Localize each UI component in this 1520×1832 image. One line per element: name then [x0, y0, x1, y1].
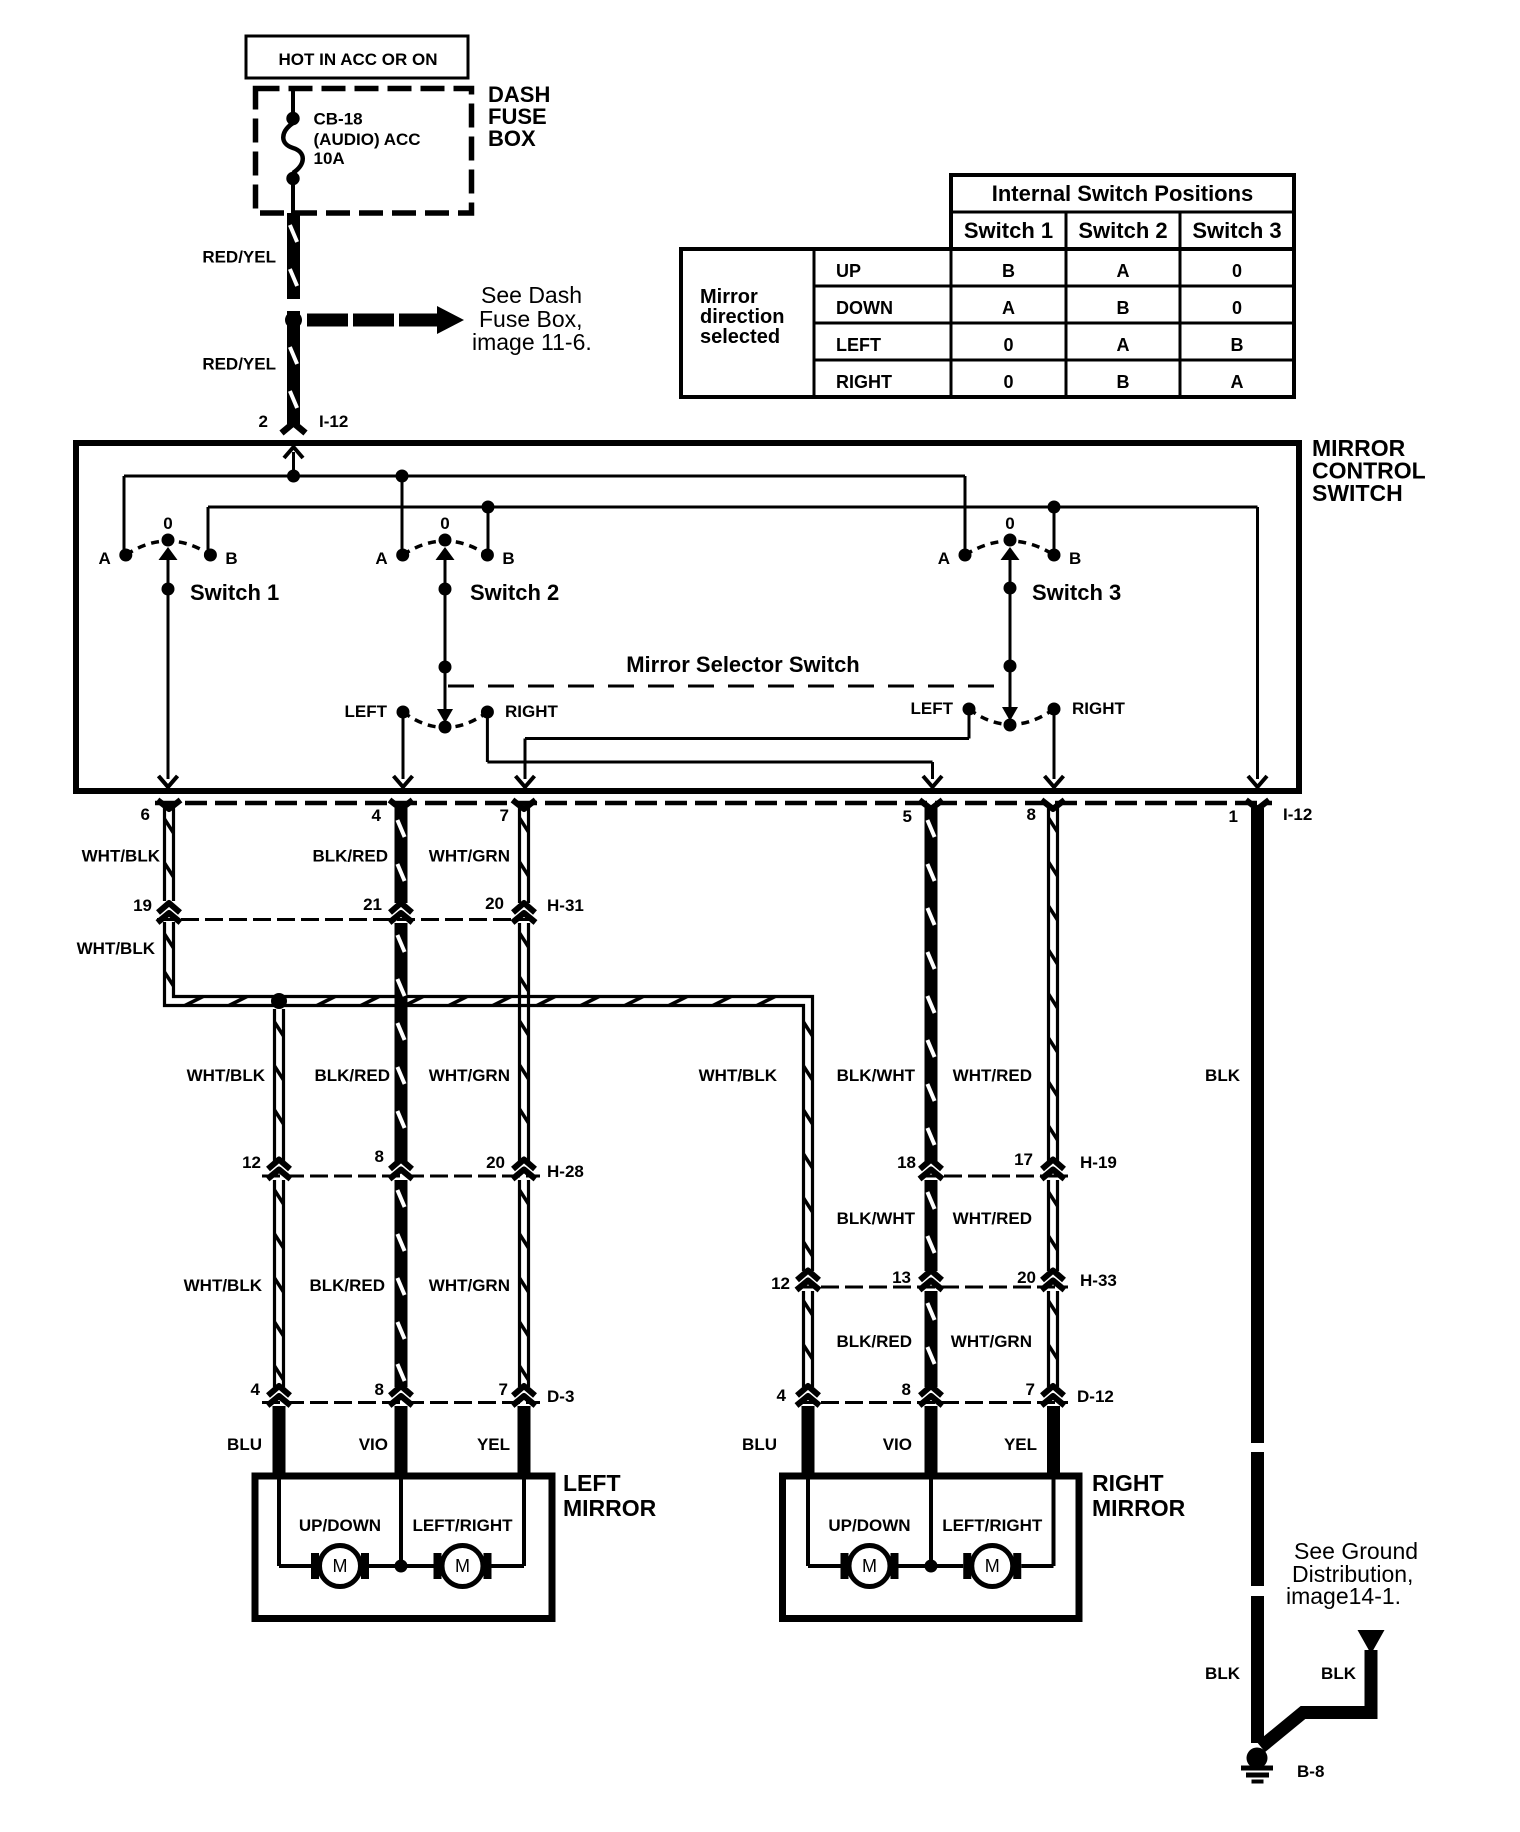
wire YEL stub right — [1047, 1406, 1060, 1476]
pin label 8 — [1027, 805, 1036, 824]
label WHT/RED second — [953, 1209, 1032, 1228]
connector I-12 pin 1 cup — [1246, 800, 1269, 809]
svg-text:YEL: YEL — [1004, 1435, 1037, 1454]
svg-text:image14-1.: image14-1. — [1286, 1583, 1401, 1609]
svg-text:I-12: I-12 — [319, 412, 348, 431]
note See Ground Distribution image14-1 — [1286, 1538, 1418, 1609]
pin label 4 (D-3) — [251, 1380, 261, 1399]
connector pair D-12 pin 7 — [1042, 1386, 1065, 1406]
svg-text:4: 4 — [372, 806, 382, 825]
svg-text:WHT/RED: WHT/RED — [953, 1209, 1032, 1228]
pin label 4 (D-12) — [777, 1386, 787, 1405]
svg-text:BLK/RED: BLK/RED — [836, 1332, 912, 1351]
svg-text:UP: UP — [836, 261, 861, 281]
svg-text:Mirror Selector Switch: Mirror Selector Switch — [626, 652, 860, 677]
svg-text:BLK/WHT: BLK/WHT — [837, 1209, 916, 1228]
power source label box HOT IN ACC OR ON — [246, 36, 468, 78]
svg-text:A: A — [938, 549, 950, 568]
switch 1 (A-0-B contacts) — [99, 514, 280, 605]
dashed arrow to See Dash Fuse Box — [307, 306, 464, 334]
connector I-12 pin 5 cup — [920, 800, 943, 809]
wire YEL stub left — [518, 1406, 531, 1476]
node junction dot — [285, 312, 302, 329]
junction dot bus2 switch2 B — [482, 501, 495, 514]
svg-text:M: M — [333, 1556, 348, 1576]
svg-text:M: M — [985, 1556, 1000, 1576]
pin label 18 — [897, 1153, 916, 1172]
label WHT/RED pin8 — [953, 1066, 1032, 1085]
connector H-28 dashed row — [262, 1175, 540, 1178]
svg-text:BLK: BLK — [1205, 1066, 1241, 1085]
right mirror assembly with motors — [783, 1476, 1080, 1619]
svg-text:RED/YEL: RED/YEL — [202, 248, 276, 267]
svg-text:A: A — [1002, 298, 1015, 318]
svg-text:WHT/RED: WHT/RED — [953, 1066, 1032, 1085]
label WHT/BLK right group — [699, 1066, 778, 1085]
connector H-19 dashed row — [920, 1175, 1068, 1178]
table row header Mirror direction selected — [700, 286, 784, 348]
labels BLU VIO YEL right — [742, 1435, 1037, 1454]
label Mirror Selector Switch — [626, 652, 860, 677]
svg-text:Switch 1: Switch 1 — [190, 580, 279, 605]
pin label 8 (D-3) — [375, 1380, 384, 1399]
connector pair H-33 pin 20 — [1042, 1271, 1065, 1291]
svg-text:Internal Switch Positions: Internal Switch Positions — [992, 181, 1254, 206]
label LEFT MIRROR — [563, 1470, 657, 1521]
svg-text:B: B — [502, 549, 514, 568]
svg-text:4: 4 — [777, 1386, 787, 1405]
connector label H-33 — [1080, 1271, 1117, 1290]
svg-text:HOT IN ACC OR ON: HOT IN ACC OR ON — [279, 50, 438, 69]
wire BLU stub left — [273, 1406, 286, 1476]
svg-text:0: 0 — [1232, 298, 1242, 318]
svg-text:13: 13 — [892, 1268, 911, 1287]
svg-text:B: B — [1117, 372, 1130, 392]
switch 2 wiper wire to selector — [439, 551, 452, 710]
wire BLK stub with arrow from ground distribution — [1261, 1630, 1385, 1747]
label BLK/RED right group — [836, 1332, 912, 1351]
connector I-12 pin 8 cup — [1042, 800, 1065, 809]
wire WHT/BLK elbow run to right mirror group — [165, 922, 813, 1271]
label WHT/GRN pin7 — [429, 847, 510, 866]
pin label 1 — [1229, 807, 1238, 826]
svg-text:7: 7 — [1026, 1380, 1035, 1399]
wire bus2 corner drop to I-12 pin 1 — [1256, 507, 1259, 779]
svg-text:LEFT: LEFT — [911, 699, 954, 718]
label BLK/WHT second — [837, 1209, 916, 1228]
svg-text:Mirror: Mirror — [700, 286, 758, 308]
connector pair D-3 pin 7 — [513, 1386, 536, 1406]
svg-text:BLU: BLU — [742, 1435, 777, 1454]
bus wire lower (to switch B contacts) — [208, 506, 1258, 509]
pin label 7 — [500, 806, 509, 825]
wire WHT/RED pin8 column — [1049, 808, 1058, 1387]
pin label 20 (H-28) — [486, 1153, 505, 1172]
svg-text:BOX: BOX — [488, 126, 536, 151]
connector label I-12 top — [319, 412, 348, 431]
pin label 12 (H-33) — [771, 1274, 790, 1293]
wire VIO stub right — [925, 1406, 938, 1476]
pin label 8 (H-28) — [375, 1147, 384, 1166]
svg-text:1: 1 — [1229, 807, 1238, 826]
svg-text:12: 12 — [771, 1274, 790, 1293]
connector I-12 pin 6 cup — [158, 800, 181, 809]
svg-text:0: 0 — [1003, 372, 1013, 392]
svg-text:BLK/RED: BLK/RED — [314, 1066, 390, 1085]
svg-text:8: 8 — [902, 1380, 911, 1399]
svg-text:LEFT: LEFT — [345, 702, 388, 721]
svg-text:B: B — [1002, 261, 1015, 281]
wire WHT/GRN pin7 column — [520, 808, 529, 1387]
svg-text:See Dash: See Dash — [481, 282, 582, 308]
wire RED/YEL from node to connector I-12 pin 2 — [287, 311, 300, 424]
svg-text:8: 8 — [375, 1380, 384, 1399]
svg-text:BLU: BLU — [227, 1435, 262, 1454]
svg-text:Switch 3: Switch 3 — [1032, 580, 1121, 605]
svg-text:WHT/BLK: WHT/BLK — [699, 1066, 778, 1085]
label BLK lower left — [1205, 1664, 1241, 1683]
label RIGHT MIRROR — [1092, 1470, 1186, 1521]
pin label 19 — [133, 896, 152, 915]
connector pair H-28 pin 20 — [513, 1160, 536, 1180]
svg-text:(AUDIO) ACC: (AUDIO) ACC — [314, 130, 421, 149]
wire bus1 drop to switch1 A — [123, 476, 126, 555]
label WHT/BLK pin6 — [82, 847, 161, 866]
labels second tier left group — [187, 1066, 510, 1085]
svg-text:0: 0 — [440, 514, 449, 533]
svg-text:RIGHT: RIGHT — [505, 702, 559, 721]
pin label 6 — [141, 805, 150, 824]
svg-text:A: A — [1117, 335, 1130, 355]
connector D-12 dashed row — [797, 1401, 1068, 1404]
svg-text:0: 0 — [1005, 514, 1014, 533]
svg-text:Switch 2: Switch 2 — [470, 580, 559, 605]
mechanical link dashed between selectors — [448, 685, 1007, 688]
table Internal Switch Positions — [681, 175, 1294, 397]
junction dot on WHT/BLK run — [271, 993, 287, 1009]
svg-text:18: 18 — [897, 1153, 916, 1172]
connector H-33 dashed row — [797, 1286, 1068, 1289]
svg-text:19: 19 — [133, 896, 152, 915]
svg-text:A: A — [1117, 261, 1130, 281]
table direction rows — [836, 261, 893, 392]
connector pair D-3 pin 4 — [268, 1386, 291, 1406]
svg-text:WHT/BLK: WHT/BLK — [77, 939, 156, 958]
wire BLK/RED pin4 column — [395, 808, 408, 1387]
pin label 8 (D-12) — [902, 1380, 911, 1399]
table header text — [964, 181, 1282, 243]
svg-text:4: 4 — [251, 1380, 261, 1399]
note See Dash Fuse Box image 11-6 — [472, 282, 592, 355]
svg-text:0: 0 — [1232, 261, 1242, 281]
connector pair H-31 pin 19 — [158, 903, 181, 923]
connector pair H-19 pin 17 — [1042, 1160, 1065, 1180]
svg-text:H-33: H-33 — [1080, 1271, 1117, 1290]
svg-text:image 11-6.: image 11-6. — [472, 329, 592, 355]
svg-text:BLK/RED: BLK/RED — [312, 847, 388, 866]
connector H-31 dashed row — [157, 918, 540, 921]
left mirror assembly with motors — [255, 1476, 552, 1619]
connector pair H-33 pin 13 — [920, 1271, 943, 1291]
switch 3 wiper wire to selector — [1004, 551, 1017, 708]
svg-text:Switch 3: Switch 3 — [1192, 218, 1281, 243]
wire bus2 rise from switch2 B — [487, 507, 490, 555]
svg-text:D-12: D-12 — [1077, 1387, 1114, 1406]
wire BLU stub right — [802, 1406, 815, 1476]
svg-text:A: A — [99, 549, 111, 568]
switch 1 wiper wire to pin 6 — [162, 551, 175, 779]
label B-8 — [1297, 1762, 1324, 1781]
svg-text:A: A — [1231, 372, 1244, 392]
connector I-12 pin 7 cup — [513, 800, 536, 809]
svg-text:20: 20 — [485, 894, 504, 913]
svg-text:B: B — [1231, 335, 1244, 355]
svg-text:UP/DOWN: UP/DOWN — [299, 1516, 381, 1535]
labels BLU VIO YEL left — [227, 1435, 510, 1454]
svg-text:YEL: YEL — [477, 1435, 510, 1454]
junction dot bus1 switch2 A — [396, 470, 409, 483]
connector pair D-12 pin 8 — [920, 1386, 943, 1406]
feed arrow into box from pin 2 — [284, 447, 303, 476]
connector pair D-12 pin 4 — [797, 1386, 820, 1406]
pin label 20 (H-31) — [485, 894, 504, 913]
svg-text:VIO: VIO — [359, 1435, 388, 1454]
svg-text:8: 8 — [375, 1147, 384, 1166]
selector output arrow pin 5 — [923, 776, 942, 787]
connector pair H-19 pin 18 — [920, 1160, 943, 1180]
svg-text:20: 20 — [486, 1153, 505, 1172]
selector output arrow pin 8 — [1045, 776, 1064, 787]
dash fuse box label — [488, 82, 550, 151]
labels third tier left group — [184, 1276, 510, 1295]
label BLK/WHT pin5 — [837, 1066, 916, 1085]
svg-text:WHT/GRN: WHT/GRN — [429, 847, 510, 866]
pin label 17 — [1014, 1150, 1033, 1169]
wire WHT/BLK left mirror branch — [275, 1009, 284, 1387]
svg-text:A: A — [375, 549, 387, 568]
wire bus2 drop to switch3 B — [1053, 507, 1056, 555]
svg-text:B-8: B-8 — [1297, 1762, 1324, 1781]
svg-text:MIRROR: MIRROR — [1092, 1495, 1186, 1521]
label BLK lower right — [1321, 1664, 1357, 1683]
junction dot feed on bus1 — [287, 470, 300, 483]
selector-left output arrow pin 4 — [394, 776, 413, 787]
label RED/YEL lower — [202, 355, 276, 374]
wire bus1 drop to switch2 A — [401, 476, 404, 555]
svg-text:B: B — [225, 549, 237, 568]
svg-text:WHT/BLK: WHT/BLK — [187, 1066, 266, 1085]
connector label H-19 — [1080, 1153, 1117, 1172]
svg-text:BLK: BLK — [1321, 1664, 1357, 1683]
circuit breaker CB-18 fuse element — [283, 88, 303, 213]
connector label H-28 — [547, 1162, 584, 1181]
connector label H-31 — [547, 896, 584, 915]
svg-text:WHT/GRN: WHT/GRN — [429, 1276, 510, 1295]
pin label 12 — [242, 1153, 261, 1172]
connector pair D-3 pin 8 — [390, 1386, 413, 1406]
svg-text:Switch 2: Switch 2 — [1078, 218, 1167, 243]
connector I-12 pin 4 cup — [390, 800, 413, 809]
svg-text:BLK: BLK — [1205, 1664, 1241, 1683]
pin label 20 (H-33) — [1017, 1268, 1036, 1287]
svg-text:DOWN: DOWN — [836, 298, 893, 318]
svg-text:RIGHT: RIGHT — [1072, 699, 1126, 718]
dash fuse box (dashed outline) — [256, 89, 472, 214]
wire WHT/BLK pin6 upper segment — [165, 808, 174, 901]
selector output arrow pin 7 — [516, 776, 535, 787]
svg-text:M: M — [862, 1556, 877, 1576]
wire WHT/BLK right lower segment — [804, 1291, 813, 1387]
pin label 13 — [892, 1268, 911, 1287]
switch 1 output arrow at box bottom — [159, 776, 178, 787]
label MIRROR CONTROL SWITCH — [1312, 435, 1426, 506]
wire BLK/WHT pin5 column — [925, 808, 938, 1387]
connector pair H-28 pin 8 — [390, 1160, 413, 1180]
connector pair H-28 pin 12 — [268, 1160, 291, 1180]
pin label 2 — [259, 412, 268, 431]
svg-text:LEFT: LEFT — [836, 335, 881, 355]
junction dot bus2 switch3 B — [1048, 501, 1061, 514]
svg-text:LEFT/RIGHT: LEFT/RIGHT — [412, 1516, 513, 1535]
connector I-12 dashed row — [155, 801, 1272, 806]
pin label 7 (D-12) — [1026, 1380, 1035, 1399]
svg-text:7: 7 — [499, 1380, 508, 1399]
connector label D-12 — [1077, 1387, 1114, 1406]
svg-text:LEFT/RIGHT: LEFT/RIGHT — [942, 1516, 1043, 1535]
switch 2 (A-0-B contacts) — [375, 514, 559, 605]
mirror selector switch left half (LEFT/RIGHT contacts) — [345, 702, 559, 734]
bus wire upper (to switch A contacts) — [124, 475, 965, 478]
connector label D-3 — [547, 1387, 574, 1406]
svg-text:H-31: H-31 — [547, 896, 584, 915]
label RED/YEL upper — [202, 248, 276, 267]
svg-text:BLK/WHT: BLK/WHT — [837, 1066, 916, 1085]
switch 3 (A-0-B contacts) — [938, 514, 1122, 605]
wire selector-right RIGHT contact to pin 8 — [1053, 709, 1056, 779]
svg-text:7: 7 — [500, 806, 509, 825]
svg-text:WHT/GRN: WHT/GRN — [429, 1066, 510, 1085]
svg-text:SWITCH: SWITCH — [1312, 480, 1403, 506]
svg-text:H-28: H-28 — [547, 1162, 584, 1181]
label BLK upper — [1205, 1066, 1241, 1085]
svg-text:Switch 1: Switch 1 — [964, 218, 1053, 243]
svg-text:VIO: VIO — [883, 1435, 912, 1454]
label BLK/RED pin4 — [312, 847, 388, 866]
connector pin 2 flare at I-12 — [282, 423, 306, 433]
pin label 7 (D-3) — [499, 1380, 508, 1399]
connector pair H-31 pin 20 — [513, 903, 536, 923]
svg-text:RIGHT: RIGHT — [836, 372, 892, 392]
svg-text:B: B — [1069, 549, 1081, 568]
svg-text:WHT/BLK: WHT/BLK — [184, 1276, 263, 1295]
svg-text:RED/YEL: RED/YEL — [202, 355, 276, 374]
pin label 5 — [903, 807, 912, 826]
ground symbol B-8 — [1241, 1748, 1273, 1784]
svg-text:WHT/BLK: WHT/BLK — [82, 847, 161, 866]
wire WHT/BLK right mirror branch pin12 segment — [797, 1271, 820, 1291]
svg-text:8: 8 — [1027, 805, 1036, 824]
connector label I-12 right — [1283, 805, 1312, 824]
table cell values — [1002, 261, 1244, 392]
wire selector-left RIGHT contact to pin 5 — [487, 712, 932, 779]
pin 1 output arrow at box bottom — [1248, 776, 1267, 787]
pin label 4 — [372, 806, 382, 825]
svg-text:WHT/GRN: WHT/GRN — [951, 1332, 1032, 1351]
svg-text:20: 20 — [1017, 1268, 1036, 1287]
svg-text:CB-18: CB-18 — [314, 110, 363, 129]
svg-text:B: B — [1117, 298, 1130, 318]
svg-text:17: 17 — [1014, 1150, 1033, 1169]
svg-text:UP/DOWN: UP/DOWN — [828, 1516, 910, 1535]
wire bus1 corner drop to switch3 A — [964, 476, 967, 555]
svg-text:I-12: I-12 — [1283, 805, 1312, 824]
svg-text:BLK/RED: BLK/RED — [309, 1276, 385, 1295]
wire selector-left LEFT contact to pin 4 — [402, 712, 405, 779]
svg-text:RIGHT: RIGHT — [1092, 1470, 1164, 1496]
pin label 21 — [363, 895, 382, 914]
svg-text:21: 21 — [363, 895, 382, 914]
wire VIO stub left — [395, 1406, 408, 1476]
switch1 output arrow pin 6 duplicate guard — [159, 776, 178, 787]
connector D-3 dashed row — [262, 1401, 540, 1404]
svg-text:2: 2 — [259, 412, 268, 431]
svg-text:selected: selected — [700, 326, 780, 348]
svg-text:direction: direction — [700, 306, 784, 328]
wire BLK ground wire pin1 — [1251, 808, 1264, 1743]
label WHT/BLK below 19 — [77, 939, 156, 958]
svg-text:H-19: H-19 — [1080, 1153, 1117, 1172]
svg-text:0: 0 — [163, 514, 172, 533]
mirror control switch box — [76, 443, 1299, 791]
wire selector-right LEFT contact to pin 7 — [525, 709, 969, 779]
svg-text:5: 5 — [903, 807, 912, 826]
mirror selector switch right half (LEFT/RIGHT contacts) — [911, 699, 1126, 732]
svg-text:0: 0 — [1003, 335, 1013, 355]
svg-text:M: M — [455, 1556, 470, 1576]
svg-text:LEFT: LEFT — [563, 1470, 621, 1496]
wire bus2 rise from switch1 B — [207, 507, 210, 555]
fuse value label CB-18 (AUDIO) ACC 10A — [314, 110, 421, 169]
svg-text:12: 12 — [242, 1153, 261, 1172]
connector pair H-31 pin 21 — [390, 903, 413, 923]
svg-text:6: 6 — [141, 805, 150, 824]
label WHT/GRN right group — [951, 1332, 1032, 1351]
wire RED/YEL from fuse box to node — [287, 213, 300, 299]
svg-text:10A: 10A — [314, 149, 345, 168]
svg-text:D-3: D-3 — [547, 1387, 574, 1406]
svg-text:MIRROR: MIRROR — [563, 1495, 657, 1521]
